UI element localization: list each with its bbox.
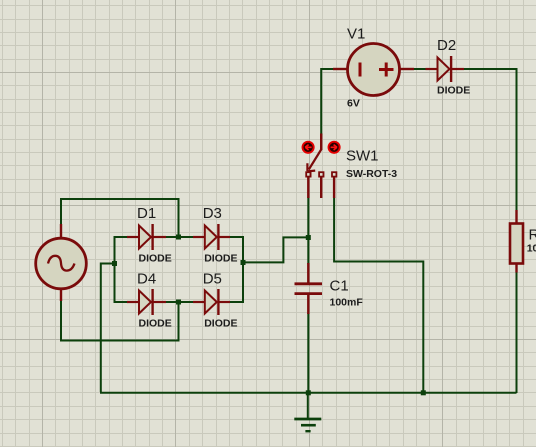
wire V1 right to D2 — [413, 68, 427, 70]
svg-text:D1: D1 — [137, 205, 156, 222]
switch rotate-left button — [303, 142, 314, 153]
switch common pin — [320, 134, 322, 151]
junction right branch rail node — [421, 390, 426, 395]
wire resistor bottom to bottom rail — [516, 272, 518, 394]
wire D1 anode — [114, 236, 129, 238]
wire V1 left to switch common — [321, 69, 333, 135]
wire D2 cathode to right rail — [463, 69, 517, 212]
svg-text:D4: D4 — [137, 271, 156, 288]
svg-text:6V: 6V — [347, 98, 360, 110]
switch rotate-right button — [329, 142, 340, 153]
svg-text:D3: D3 — [203, 205, 222, 222]
ground — [294, 392, 321, 431]
wire bridge output to cap top node — [242, 237, 309, 262]
wire D1 cathode to junction — [165, 236, 180, 238]
switch left throw pin — [307, 177, 309, 198]
capacitor C1 — [295, 263, 323, 314]
svg-text:DIODE: DIODE — [139, 318, 172, 330]
switch middle throw contact — [319, 172, 323, 176]
junction D1-D3 node — [176, 235, 181, 240]
junction D4-D5 node — [176, 300, 181, 305]
switch left throw contact — [306, 172, 310, 176]
svg-text:DIODE: DIODE — [139, 253, 172, 265]
svg-text:SW1: SW1 — [346, 148, 379, 165]
junction cap top node — [306, 235, 311, 240]
wire D4 anode — [114, 301, 129, 303]
wire D4 cathode to junction — [165, 301, 180, 303]
wire bottom rail — [100, 392, 517, 394]
switch pole lever — [309, 150, 321, 170]
diode D3 — [193, 224, 230, 250]
svg-text:DIODE: DIODE — [437, 85, 470, 97]
battery V1 — [333, 44, 414, 96]
svg-text:R1: R1 — [529, 227, 536, 244]
svg-text:V1: V1 — [347, 26, 365, 43]
switch middle throw pin — [320, 177, 322, 198]
diode D1 — [127, 224, 166, 250]
junction cap bottom rail node — [306, 390, 311, 395]
diode D2 — [426, 56, 465, 82]
diode D5 — [193, 289, 230, 315]
wire capacitor bottom to bottom rail — [307, 313, 309, 393]
wire switch right throw branch — [334, 197, 423, 392]
wire D5 anode — [178, 301, 195, 303]
switch right throw pin — [333, 177, 335, 198]
wire left rail D1-D4 anodes — [114, 236, 116, 303]
diode D4 — [127, 289, 166, 315]
rotary switch SW1 — [306, 134, 336, 199]
junction left rail node — [112, 261, 117, 266]
wire D5 cathode to output — [229, 261, 243, 302]
svg-text:D2: D2 — [437, 37, 456, 54]
junction bridge output node — [241, 260, 246, 265]
svg-text:SW-ROT-3: SW-ROT-3 — [346, 168, 397, 180]
svg-text:DIODE: DIODE — [204, 318, 237, 330]
svg-text:D5: D5 — [203, 271, 222, 288]
wire left rail to bottom rail — [101, 264, 115, 393]
wire cap top node to capacitor — [307, 236, 309, 264]
switch right throw contact — [332, 172, 336, 176]
wire D3 anode — [178, 236, 195, 238]
switch lever arrowhead — [307, 163, 315, 171]
resistor R1 — [510, 210, 523, 273]
wire source bottom to D4-D5 junction — [61, 301, 179, 341]
wire source top to D1-D3 junction — [61, 199, 179, 237]
AC source V2 — [36, 224, 87, 301]
svg-text:100mF: 100mF — [330, 297, 364, 309]
svg-text:DIODE: DIODE — [204, 253, 237, 265]
svg-text:10k: 10k — [527, 243, 536, 255]
wire D3 cathode to output — [229, 237, 243, 263]
wire cap top node to switch left throw — [307, 197, 309, 238]
svg-text:C1: C1 — [330, 278, 349, 295]
